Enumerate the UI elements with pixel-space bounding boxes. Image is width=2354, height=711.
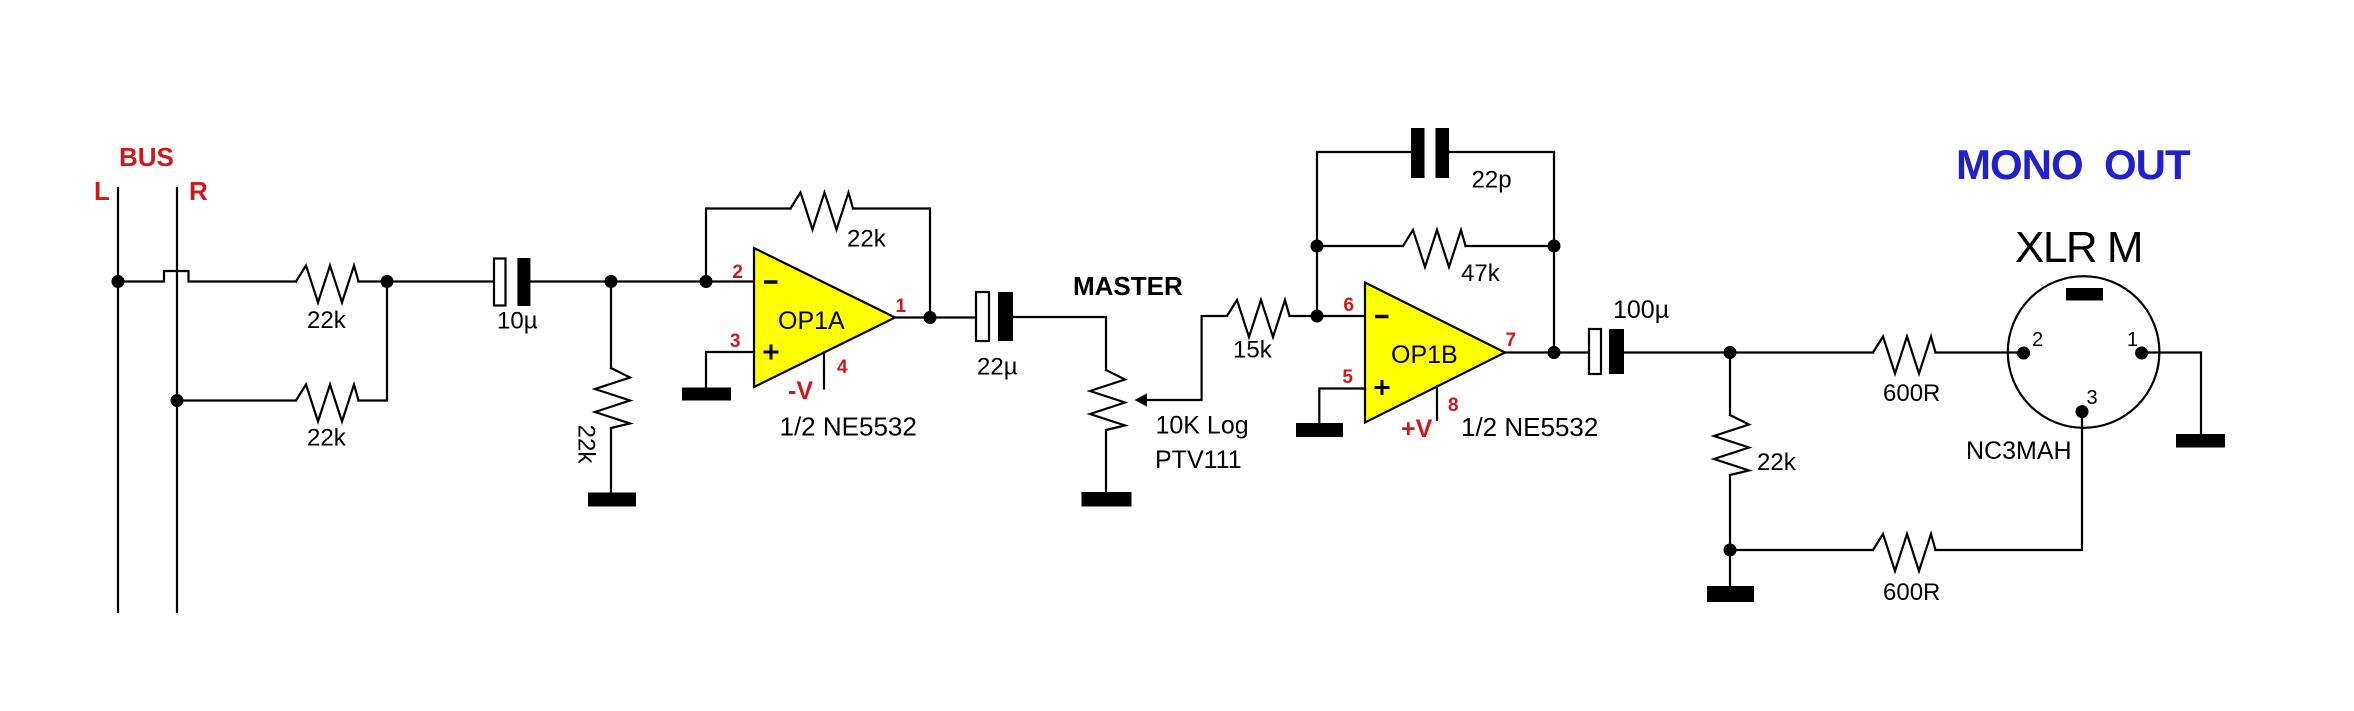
- node L junction: [112, 275, 125, 288]
- wire down to 22k shunt: [610, 282, 612, 369]
- svg-text:MONO OUT: MONO OUT: [1956, 141, 2191, 188]
- resistor 22k shunt vertical: [595, 368, 630, 428]
- resistor R 22k upper: [296, 266, 359, 303]
- plus sign OP1B: [1375, 386, 1390, 389]
- resistor 22k feedback OP1A: [791, 193, 854, 230]
- minus sign OP1B: [1375, 315, 1389, 319]
- svg-text:600R: 600R: [1883, 579, 1940, 606]
- svg-text:MASTER: MASTER: [1073, 271, 1183, 301]
- svg-text:3: 3: [2087, 387, 2098, 409]
- wire feedback right vertical OP1B: [1553, 152, 1555, 353]
- svg-text:4: 4: [837, 357, 848, 378]
- wire cap 22u to pot top: [1013, 317, 1106, 370]
- op-amp OP1A: [754, 248, 895, 387]
- svg-text:47k: 47k: [1461, 260, 1501, 287]
- svg-text:22p: 22p: [1472, 167, 1512, 194]
- wire cap 10u to op-amp input: [530, 280, 754, 282]
- svg-text:22µ: 22µ: [977, 354, 1018, 381]
- node R bus junction: [171, 394, 184, 407]
- XLR pin 3: [2076, 405, 2089, 418]
- svg-text:22k: 22k: [1757, 449, 1797, 476]
- wire 47k to right vertical: [1466, 245, 1555, 247]
- svg-text:BUS: BUS: [119, 142, 174, 172]
- svg-text:6: 6: [1343, 295, 1354, 316]
- wire feedback top-left to cap 22p: [1317, 151, 1411, 153]
- node OP1A output junction: [924, 311, 937, 324]
- svg-text:OP1A: OP1A: [778, 307, 845, 335]
- pin 8 stub OP1B: [1436, 386, 1438, 420]
- wire lower junction to ground: [1729, 550, 1731, 586]
- wire L bus vertical: [117, 188, 119, 612]
- svg-text:10µ: 10µ: [497, 308, 538, 335]
- wire lower junction to 600R lower: [1730, 549, 1873, 551]
- svg-text:100µ: 100µ: [1613, 296, 1669, 324]
- svg-text:600R: 600R: [1883, 380, 1940, 407]
- svg-text:22k: 22k: [307, 425, 347, 452]
- svg-text:R: R: [189, 176, 208, 206]
- pin 4 stub OP1A: [823, 353, 825, 389]
- wire 600R lower to XLR pin 3: [1936, 412, 2083, 550]
- wire feedback up-left OP1A: [706, 209, 791, 282]
- wire 600R to XLR pin 2: [1936, 351, 2024, 353]
- wire XLR pin 1 to ground: [2142, 353, 2201, 435]
- XLR pin 1: [2135, 347, 2148, 360]
- potentiometer 10K resistor body: [1090, 370, 1125, 430]
- svg-text:15k: 15k: [1233, 337, 1273, 364]
- wire R2 up to summing node: [359, 282, 388, 401]
- svg-text:OP1B: OP1B: [1391, 341, 1458, 369]
- ground at OP1A pin 3: [682, 388, 731, 401]
- svg-text:1: 1: [2127, 329, 2138, 351]
- op-amp OP1B: [1365, 283, 1505, 423]
- resistor 600R lower: [1873, 534, 1936, 571]
- wire feedback left vertical OP1B: [1316, 152, 1318, 316]
- node feedback mid-right junction: [1548, 240, 1561, 253]
- wire feedback mid-left to 47k: [1317, 245, 1403, 247]
- svg-text:22k: 22k: [307, 307, 347, 334]
- node output divider junction: [1724, 346, 1737, 359]
- resistor 15k: [1227, 300, 1290, 337]
- node lower junction: [1724, 544, 1737, 557]
- wire 22k shunt to ground: [610, 428, 612, 492]
- resistor 22k load vertical: [1714, 415, 1749, 475]
- wire down to 22k load: [1729, 353, 1731, 416]
- ground below pot: [1082, 492, 1132, 507]
- wire 22k load to lower junction: [1729, 476, 1731, 550]
- plus sign OP1A: [764, 351, 779, 354]
- svg-text:1/2 NE5532: 1/2 NE5532: [780, 412, 917, 442]
- svg-text:-V: -V: [788, 377, 813, 405]
- capacitor C 100u electrolytic: [1589, 329, 1601, 374]
- minus sign OP1A: [764, 280, 778, 284]
- wire 15k to OP1B pin 6: [1290, 315, 1366, 317]
- wire pin 5 to ground OP1B: [1319, 389, 1365, 424]
- wire R junction to R2: [177, 399, 296, 401]
- svg-text:PTV111: PTV111: [1155, 446, 1242, 474]
- wire feedback down to output OP1A: [853, 209, 930, 318]
- svg-text:10K Log: 10K Log: [1156, 412, 1249, 440]
- svg-text:2: 2: [2032, 329, 2043, 351]
- ground right of XLR: [2176, 434, 2225, 448]
- ground below lower junction: [1707, 586, 1754, 602]
- node summing junction: [381, 275, 394, 288]
- node junction at 22k shunt: [605, 275, 618, 288]
- wire wiper to 15k: [1146, 316, 1227, 400]
- svg-text:+V: +V: [1401, 415, 1433, 443]
- wire R bus vertical: [176, 188, 178, 612]
- capacitor C 10u electrolytic: [494, 259, 506, 306]
- svg-text:XLR M: XLR M: [2015, 223, 2142, 272]
- ground at OP1B pin 5: [1296, 423, 1343, 437]
- wire OP1A output to cap 22u: [895, 316, 976, 318]
- capacitor C 22p: [1411, 128, 1425, 178]
- resistor 600R upper: [1873, 337, 1936, 374]
- wire OP1B output to cap 100u: [1505, 351, 1589, 353]
- connector XLR shell circle: [2008, 276, 2160, 428]
- svg-text:2: 2: [732, 262, 743, 283]
- svg-text:7: 7: [1506, 330, 1517, 351]
- svg-text:1/2 NE5532: 1/2 NE5532: [1461, 412, 1598, 442]
- svg-text:22k: 22k: [847, 226, 887, 253]
- resistor 47k feedback: [1403, 230, 1466, 267]
- ground below 22k shunt: [588, 493, 636, 507]
- wire cap 22p to right vertical: [1449, 151, 1554, 153]
- node feedback mid-left junction: [1311, 240, 1324, 253]
- svg-text:3: 3: [730, 331, 741, 352]
- pot wiper arrow: [1135, 393, 1148, 406]
- wire R1 to cap 10u: [359, 280, 495, 282]
- svg-text:L: L: [94, 176, 110, 206]
- wire cap 100u to 600R: [1624, 351, 1873, 353]
- wire pin 3 to ground OP1A: [706, 352, 754, 388]
- node OP1B output junction: [1548, 346, 1561, 359]
- resistor R 22k lower: [296, 385, 359, 422]
- capacitor C 22u electrolytic: [976, 292, 989, 341]
- svg-text:5: 5: [1342, 367, 1353, 388]
- svg-text:8: 8: [1448, 395, 1459, 416]
- svg-text:1: 1: [896, 296, 907, 317]
- node feedback tap junction: [700, 275, 713, 288]
- node OP1B inverting input junction: [1311, 310, 1324, 323]
- XLR pin 2: [2017, 347, 2030, 360]
- svg-text:NC3MAH: NC3MAH: [1966, 437, 2072, 465]
- wire pot bottom to ground: [1105, 430, 1107, 492]
- wire L to R1 with hop over R bus: [118, 271, 296, 282]
- XLR key notch: [2066, 288, 2103, 301]
- svg-text:22k: 22k: [573, 425, 600, 465]
